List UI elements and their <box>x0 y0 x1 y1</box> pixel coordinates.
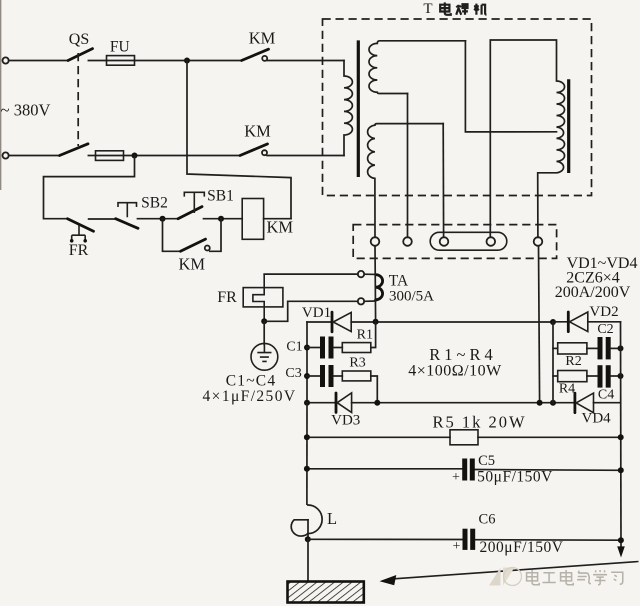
thermal relay contact FR (NC) blade <box>68 219 94 232</box>
svg-text:VD3: VD3 <box>331 412 360 428</box>
bridge bottom row wire <box>307 402 336 404</box>
svg-text:+: + <box>452 470 460 485</box>
wire KM aux self-hold branch <box>163 219 181 252</box>
capacitor C6 row wire <box>308 538 463 540</box>
transformer core (left) <box>357 40 360 177</box>
welding transformer enclosure (dashed box) <box>323 19 592 196</box>
SB2 button cap <box>118 203 137 218</box>
svg-text:R1: R1 <box>357 327 373 342</box>
wire KM1 to transformer primary <box>267 60 344 62</box>
svg-text:R4: R4 <box>559 381 575 396</box>
wire KM2 to transformer primary <box>267 155 344 157</box>
wire ground node to TA secondary bottom terminal <box>264 301 358 321</box>
terminal block (dashed) <box>353 225 556 259</box>
terminal 5 <box>534 237 543 246</box>
contactor contact KM2 blade <box>240 144 268 156</box>
transformer primary winding (left) <box>344 61 352 156</box>
phase L2 input terminal <box>3 152 9 158</box>
diode VD2 <box>553 321 568 323</box>
glyph han (title) <box>456 4 468 15</box>
svg-text:C5: C5 <box>478 453 495 469</box>
resistor R5 row wire <box>307 436 450 438</box>
wire control feed from phase1 node down to KM coil right side <box>187 61 291 219</box>
wire QS1 to FU1 <box>88 60 107 62</box>
node C2/right rail <box>618 345 624 351</box>
phase L1 input terminal <box>3 57 9 63</box>
svg-text:C3: C3 <box>285 366 301 381</box>
svg-text:SB1: SB1 <box>207 187 234 204</box>
contactor aux contact KM blade <box>181 239 206 251</box>
fuse FU2 <box>96 155 124 157</box>
svg-text:200μF/150V: 200μF/150V <box>480 539 564 556</box>
diode VD3 <box>335 393 338 412</box>
wire FU2 to KM2 with node <box>124 155 241 157</box>
wire winding1 link down-right <box>465 41 556 132</box>
svg-text:+: + <box>453 539 461 554</box>
wire aux contact up to node <box>210 219 221 252</box>
watermark text dian-gong-dian-qi-xue-xi <box>527 570 623 585</box>
svg-text:TA: TA <box>389 273 409 290</box>
wire winding2 top lead to terminal 3 <box>442 124 444 238</box>
contactor coil KM <box>242 199 263 240</box>
node terminal5 rail <box>537 400 543 406</box>
svg-text:~ 380V: ~ 380V <box>1 101 51 120</box>
svg-text:C4: C4 <box>598 388 614 403</box>
secondary winding 1 (upper left) <box>369 41 465 94</box>
shorting link (stadium) terminals 3-4 <box>430 232 507 250</box>
fuse FU1 <box>107 60 135 62</box>
terminal 4 <box>487 237 496 246</box>
terminal 3 <box>440 237 449 246</box>
resistor R5 <box>450 430 478 445</box>
glyph dian (title) <box>440 2 451 14</box>
SB1 button cap <box>184 192 204 213</box>
wire L2 to QS <box>9 155 60 157</box>
thermal relay heater FR <box>243 288 283 307</box>
node C4/right rail <box>618 373 624 379</box>
secondary winding 3 (right) with leads <box>490 40 564 237</box>
node R5 left <box>304 434 310 440</box>
svg-text:KM: KM <box>267 218 294 237</box>
capacitor C2 <box>598 337 603 359</box>
push button SB2 (stop, NC) blade <box>116 219 138 229</box>
wire SB1 to KM coil with node <box>204 218 243 220</box>
inductor L (choke) <box>308 505 322 534</box>
node TA/bridge top <box>373 319 379 325</box>
resistor R3 <box>342 371 371 381</box>
left RC rail <box>306 322 308 403</box>
capacitor C4 <box>598 365 603 387</box>
TA secondary top terminal <box>358 271 364 277</box>
node FR/ground <box>261 318 267 324</box>
capacitor C5 (electrolytic) <box>462 459 467 481</box>
TA secondary bottom terminal <box>358 298 364 304</box>
wire terminal5 down to bridge <box>539 246 540 403</box>
svg-text:R2: R2 <box>565 354 581 369</box>
diode VD1 <box>331 312 334 332</box>
node C6 right <box>618 537 624 543</box>
wire winding1 bottom lead to terminal 2 <box>407 94 409 238</box>
svg-text:FU: FU <box>110 38 130 55</box>
node phase1/control feed <box>184 58 190 64</box>
svg-text:4×1μF/250V: 4×1μF/250V <box>203 388 297 405</box>
earth/chassis ground symbol <box>263 321 265 344</box>
right RC rail <box>552 322 554 403</box>
node C1 row <box>304 345 310 351</box>
svg-text:VD2: VD2 <box>589 304 618 320</box>
left output rail <box>306 403 308 505</box>
capacitor C1 <box>307 347 320 349</box>
node right RC rail bottom <box>550 400 556 406</box>
svg-text:50μF/150V: 50μF/150V <box>477 468 553 485</box>
watermark logo <box>489 568 522 586</box>
wire terminal1 down to TA primary / bridge node <box>374 246 377 322</box>
push button SB1 (start, NO) blade <box>178 207 202 219</box>
output arrow (electrode lead) <box>617 546 625 557</box>
terminal 1 <box>371 237 380 246</box>
wire KM coil to right rail <box>264 218 291 220</box>
QS mechanical link (dashed) <box>77 53 79 146</box>
transformer core (right) <box>567 79 570 173</box>
svg-text:R1~R4: R1~R4 <box>429 345 496 364</box>
wire L1 to QS <box>9 60 68 62</box>
wire FR top to TA secondary top terminal <box>264 273 358 275</box>
svg-text:FR: FR <box>69 242 89 259</box>
node C5 right <box>618 467 624 473</box>
node phase2/control feed <box>132 153 138 159</box>
diode VD4 <box>574 393 577 412</box>
node C5 left <box>304 466 310 472</box>
node L/C6 row <box>305 536 311 542</box>
svg-text:L: L <box>327 509 337 528</box>
svg-text:C6: C6 <box>479 512 496 528</box>
current transformer TA secondary winding <box>376 275 383 300</box>
svg-text:R3: R3 <box>349 355 365 370</box>
svg-text:QS: QS <box>69 31 89 48</box>
terminal 2 <box>403 237 412 246</box>
svg-text:KM: KM <box>179 254 206 273</box>
switch QS pole 1 blade <box>68 49 93 61</box>
capacitor C3 <box>307 375 320 377</box>
switch QS pole 2 blade <box>60 144 89 156</box>
FR trip actuator <box>72 226 86 241</box>
node top row / right RC rail <box>550 319 556 325</box>
right output rail <box>620 322 623 547</box>
wire control feed from phase2 node down-left to FR contact <box>44 156 135 219</box>
resistor R4 <box>553 375 558 377</box>
node bottom-left <box>304 400 310 406</box>
svg-text:VD4: VD4 <box>582 410 612 426</box>
svg-text:SB2: SB2 <box>141 195 168 212</box>
bridge top row wire <box>307 321 332 323</box>
contactor contact KM1 blade <box>242 49 269 60</box>
svg-text:300/5A: 300/5A <box>389 288 434 304</box>
wire FU1 to KM1 with node <box>135 60 242 62</box>
svg-text:C1: C1 <box>286 340 302 355</box>
resistor R2 <box>553 347 558 349</box>
node R5 right <box>618 434 624 440</box>
svg-text:FR: FR <box>217 289 237 306</box>
glyph ji (title) <box>474 4 487 15</box>
node R3 drop <box>374 400 380 406</box>
svg-text:R5 1k 20W: R5 1k 20W <box>432 413 526 432</box>
resistor R1 <box>342 343 371 353</box>
arc arrow to workpiece <box>394 562 639 579</box>
wire SB2 to SB1 with node <box>138 218 179 220</box>
wire FR to SB2 <box>89 218 116 220</box>
wire L to workpiece plate <box>307 539 309 581</box>
svg-text:T: T <box>423 1 432 17</box>
svg-text:C2: C2 <box>597 322 613 337</box>
capacitor C6 (electrolytic) <box>463 529 468 550</box>
svg-text:4×100Ω/10W: 4×100Ω/10W <box>408 363 502 380</box>
secondary winding 2 (lower left) <box>368 124 444 238</box>
wire QS2 to FU2 <box>88 155 95 157</box>
node SB1/KM-aux <box>218 216 224 222</box>
node C3 row <box>304 373 310 379</box>
node SB2/KM-aux <box>160 216 166 222</box>
svg-text:KM: KM <box>249 28 276 47</box>
svg-text:KM: KM <box>244 122 271 141</box>
svg-text:VD1: VD1 <box>302 305 331 321</box>
svg-text:200A/200V: 200A/200V <box>555 284 631 301</box>
capacitor C5 row wire <box>307 468 462 470</box>
